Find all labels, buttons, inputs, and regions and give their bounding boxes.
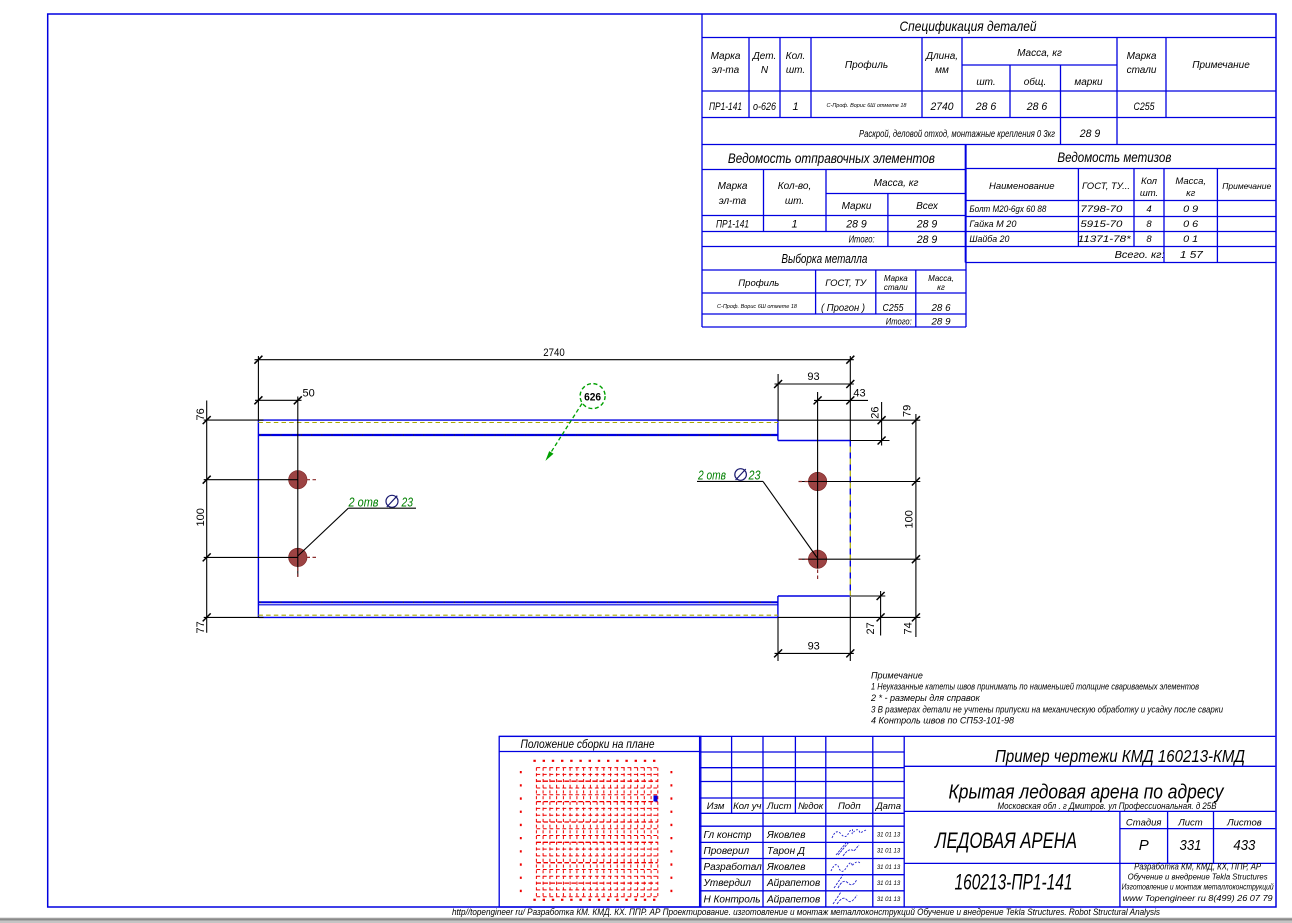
- svg-text:1: 1: [792, 101, 798, 113]
- svg-text:С255: С255: [1134, 101, 1156, 113]
- svg-text:2 * - размеры для справок: 2 * - размеры для справок: [870, 693, 981, 703]
- svg-text:23: 23: [748, 468, 761, 483]
- svg-text:31 01 13: 31 01 13: [877, 849, 901, 855]
- svg-text:50: 50: [303, 388, 315, 400]
- svg-text:Марки: Марки: [842, 201, 872, 212]
- svg-text:2740: 2740: [930, 101, 955, 113]
- svg-text:2 отв: 2 отв: [348, 494, 379, 509]
- svg-text:http//topengineer ru/ Разрабо: http//topengineer ru/ Разработка КМ. КМД…: [452, 907, 1160, 917]
- profile body outline (channel elevation): [258, 420, 850, 617]
- svg-text:43: 43: [853, 388, 865, 400]
- svg-text:Кол.: Кол.: [786, 51, 806, 62]
- svg-text:ЛЕДОВАЯ АРЕНА: ЛЕДОВАЯ АРЕНА: [933, 828, 1077, 853]
- svg-text:4 Контроль швов по СП53-101-9: 4 Контроль швов по СП53-101-98: [871, 716, 1014, 726]
- svg-text:шт.: шт.: [785, 196, 804, 207]
- svg-text:160213-ПР1-141: 160213-ПР1-141: [955, 870, 1073, 895]
- svg-text:1 57: 1 57: [1180, 250, 1204, 261]
- svg-text:Дет.: Дет.: [752, 51, 777, 62]
- svg-text:Стадия: Стадия: [1126, 818, 1162, 829]
- svg-text:433: 433: [1233, 837, 1256, 854]
- svg-text:28 6: 28 6: [975, 101, 997, 113]
- dimension chain right (79/100/74): [778, 414, 920, 637]
- bottom flange hidden edge (olive dashed): [258, 614, 778, 616]
- svg-text:Примечание: Примечание: [1222, 181, 1271, 191]
- svg-text:626: 626: [584, 392, 601, 404]
- svg-text:Масса,: Масса,: [1175, 176, 1206, 187]
- svg-text:Марка: Марка: [1127, 51, 1157, 62]
- dimension 93 (bottom): [774, 597, 854, 661]
- svg-text:0 6: 0 6: [1183, 219, 1199, 230]
- window edge grey bar: [0, 917, 1292, 918]
- svg-text:Айрапетов: Айрапетов: [766, 878, 820, 889]
- svg-text:о-626: о-626: [753, 101, 777, 113]
- dimension 43: [814, 396, 868, 404]
- svg-text:28 9: 28 9: [1079, 128, 1100, 140]
- svg-text:кг: кг: [1186, 188, 1195, 199]
- svg-text:Проверил: Проверил: [704, 846, 750, 857]
- svg-text:Профиль: Профиль: [738, 278, 779, 289]
- svg-text:Ведомость отправочных элементо: Ведомость отправочных элементов: [728, 150, 935, 166]
- bottom flange visible edges: [258, 601, 778, 603]
- svg-text:Яковлев: Яковлев: [766, 830, 805, 841]
- svg-text:100: 100: [903, 510, 915, 528]
- svg-text:Московская обл . г Дмитров. у: Московская обл . г Дмитров. ул Профессио…: [998, 801, 1218, 812]
- hole centrelines left: [204, 397, 298, 577]
- svg-text:С255: С255: [883, 303, 904, 314]
- svg-text:23: 23: [401, 494, 414, 509]
- svg-text:8: 8: [1146, 234, 1152, 245]
- svg-text:Тарон Д: Тарон Д: [767, 846, 805, 857]
- svg-text:Всего. кг:: Всего. кг:: [1115, 250, 1165, 261]
- svg-text:Болт М20-6gх 60 88: Болт М20-6gх 60 88: [969, 204, 1047, 215]
- svg-text:28 6: 28 6: [931, 303, 951, 314]
- svg-text:Гл констр: Гл констр: [704, 830, 752, 841]
- hole bottom-right: [808, 550, 826, 568]
- svg-text:Кол уч: Кол уч: [733, 801, 761, 812]
- svg-text:31 01 13: 31 01 13: [877, 881, 901, 887]
- svg-text:4: 4: [1146, 204, 1151, 215]
- svg-text:100: 100: [195, 508, 207, 526]
- svg-text:Р: Р: [1139, 837, 1149, 854]
- svg-text:31 01 13: 31 01 13: [877, 897, 901, 903]
- red building grid: [521, 761, 672, 900]
- svg-text:77: 77: [195, 621, 207, 633]
- svg-text:Изготовление и монтаж металлок: Изготовление и монтаж металлоконструкций: [1122, 883, 1274, 892]
- svg-text:Примечание: Примечание: [871, 670, 923, 680]
- dimension chain left (76/100/77): [203, 401, 264, 633]
- svg-text:Разработал: Разработал: [704, 861, 763, 873]
- svg-text:Разработка КМ, КМД, КХ, ППР, А: Разработка КМ, КМД, КХ, ППР, АР: [1134, 862, 1261, 872]
- svg-text:1: 1: [791, 219, 797, 231]
- dimension 2740 (top): [254, 356, 854, 441]
- svg-text:Кол-во,: Кол-во,: [778, 181, 812, 192]
- dimension 50 (left top): [254, 396, 301, 404]
- svg-text:Лист: Лист: [766, 801, 792, 812]
- svg-text:1 Неуказанные катеты швов при: 1 Неуказанные катеты швов принимать по н…: [871, 682, 1199, 692]
- title block: [904, 766, 1275, 907]
- grid position marker (blue): [654, 796, 658, 802]
- svg-text:Наименование: Наименование: [989, 181, 1055, 192]
- svg-text:( Прогон ): ( Прогон ): [821, 303, 865, 314]
- svg-text:ГОСТ, ТУ...: ГОСТ, ТУ...: [1082, 181, 1130, 192]
- svg-text:ГОСТ, ТУ: ГОСТ, ТУ: [825, 278, 867, 289]
- svg-text:Лист: Лист: [1177, 818, 1203, 829]
- right end hidden edge (dashed blue/olive): [849, 441, 851, 597]
- svg-text:Всех: Всех: [916, 201, 939, 212]
- signatures (blue scribbles): [831, 829, 866, 904]
- svg-text:Шайба 20: Шайба 20: [969, 234, 1010, 245]
- svg-text:ПР1-141: ПР1-141: [709, 101, 742, 113]
- svg-text:Выборка металла: Выборка металла: [781, 251, 867, 266]
- svg-text:Айрапетов: Айрапетов: [766, 894, 820, 905]
- svg-text:28 9: 28 9: [916, 219, 937, 231]
- svg-text:Подп: Подп: [838, 801, 861, 812]
- table: Ведомость метизов: [965, 145, 1276, 263]
- svg-text:2 отв: 2 отв: [697, 468, 726, 483]
- svg-text:11371-78*: 11371-78*: [1078, 234, 1131, 245]
- label 2 отв d23 (right): [697, 468, 761, 483]
- dimension 93 (top right): [774, 374, 854, 420]
- svg-text:26: 26: [869, 407, 881, 419]
- svg-text:шт.: шт.: [976, 77, 995, 88]
- label 2 отв d23 (left): [348, 494, 414, 509]
- svg-text:Утвердил: Утвердил: [703, 878, 752, 889]
- svg-text:31 01 13: 31 01 13: [877, 833, 901, 839]
- svg-text:ПР1-141: ПР1-141: [716, 219, 749, 231]
- svg-text:Пример чертежи КМД 160213-КМД: Пример чертежи КМД 160213-КМД: [995, 746, 1245, 766]
- svg-text:Н Контроль: Н Контроль: [704, 894, 761, 905]
- svg-text:5915-70: 5915-70: [1080, 219, 1123, 230]
- svg-text:331: 331: [1180, 837, 1202, 854]
- leader arrow of mark 626: [547, 404, 582, 459]
- dimension 27 (bottom right): [850, 591, 885, 636]
- svg-text:эл-та: эл-та: [719, 196, 747, 207]
- svg-text:93: 93: [808, 641, 820, 653]
- svg-text:Гайка М 20: Гайка М 20: [969, 219, 1017, 230]
- staff table (Изм/Кол.уч/Лист/№док/Подп/Дата): [499, 736, 1275, 907]
- svg-text:Дата: Дата: [875, 801, 901, 812]
- svg-text:Положение сборки на плане: Положение сборки на плане: [521, 737, 655, 751]
- svg-text:Длина,: Длина,: [925, 51, 958, 62]
- svg-text:эл-та: эл-та: [712, 65, 740, 76]
- NOTES: [870, 670, 1223, 725]
- svg-text:Примечание: Примечание: [1192, 60, 1250, 71]
- svg-text:мм: мм: [935, 65, 949, 76]
- hole top-left: [289, 471, 307, 489]
- svg-text:www Topengineer ru 8(49: www Topengineer ru 8(499) 26 07 79: [1123, 894, 1274, 903]
- dimension 26 (right): [850, 402, 889, 446]
- table: Ведомость отправочных элементов: [702, 145, 966, 328]
- svg-text:74: 74: [902, 622, 914, 634]
- svg-text:28 9: 28 9: [845, 219, 866, 231]
- svg-text:Яковлев: Яковлев: [766, 862, 805, 873]
- svg-text:шт.: шт.: [786, 65, 805, 76]
- svg-text:С-Проф. Ворис 6Ш отмете 18: С-Проф. Ворис 6Ш отмете 18: [717, 304, 798, 310]
- svg-text:стали: стали: [1127, 65, 1157, 76]
- hole bottom-left: [289, 548, 307, 566]
- svg-text:N: N: [761, 65, 769, 76]
- svg-text:общ.: общ.: [1024, 76, 1046, 88]
- svg-text:№док: №док: [798, 801, 824, 812]
- box: Положение сборки на плане: [499, 736, 701, 907]
- svg-text:Масса, кг: Масса, кг: [1017, 48, 1062, 59]
- svg-text:28 9: 28 9: [916, 234, 937, 246]
- svg-text:79: 79: [901, 405, 913, 417]
- svg-text:шт.: шт.: [1140, 188, 1158, 199]
- svg-text:27: 27: [865, 622, 877, 634]
- svg-text:Спецификация деталей: Спецификация деталей: [900, 18, 1037, 34]
- svg-text:кг: кг: [937, 283, 945, 292]
- svg-text:Кол: Кол: [1141, 176, 1158, 187]
- svg-text:Обучение и внедрение Tekla St: Обучение и внедрение Tekla Structures: [1128, 873, 1268, 882]
- svg-text:0 9: 0 9: [1183, 204, 1199, 215]
- svg-text:76: 76: [195, 408, 207, 420]
- svg-text:8: 8: [1146, 219, 1152, 230]
- svg-text:Масса,: Масса,: [928, 274, 954, 283]
- svg-text:3 В размерах детали не учтены: 3 В размерах детали не учтены припуски н…: [871, 704, 1223, 714]
- svg-text:стали: стали: [884, 283, 908, 292]
- svg-text:31 01 13: 31 01 13: [877, 865, 901, 871]
- top flange hidden edge (olive dashed): [258, 422, 778, 424]
- svg-text:Масса, кг: Масса, кг: [874, 178, 919, 189]
- svg-text:Изм: Изм: [707, 801, 725, 812]
- table: Спецификация деталей: [702, 14, 1276, 145]
- svg-text:Профиль: Профиль: [845, 59, 888, 71]
- top flange visible edge (thick): [258, 434, 778, 436]
- svg-text:7798-70: 7798-70: [1080, 204, 1123, 215]
- svg-text:28 6: 28 6: [1026, 101, 1048, 113]
- svg-text:2740: 2740: [543, 347, 565, 359]
- svg-text:Итого:: Итого:: [849, 235, 875, 246]
- svg-text:28 9: 28 9: [930, 317, 951, 328]
- table: Выборка металла: [702, 270, 966, 327]
- svg-text:Раскрой, деловой отход, монтаж: Раскрой, деловой отход, монтажные крепле…: [859, 129, 1055, 140]
- svg-text:Ведомость метизов: Ведомость метизов: [1057, 149, 1171, 165]
- svg-text:Марка: Марка: [711, 51, 741, 62]
- svg-text:С-Проф. Ворис 6Ш отмете 18: С-Проф. Ворис 6Ш отмете 18: [827, 103, 908, 109]
- svg-text:93: 93: [807, 371, 819, 383]
- detail mark 626 (green circle): [580, 384, 605, 409]
- hole top-right: [808, 472, 826, 490]
- hole centrelines right: [799, 392, 921, 569]
- svg-text:0 1: 0 1: [1183, 234, 1198, 245]
- svg-text:марки: марки: [1074, 77, 1103, 88]
- svg-text:Листов: Листов: [1226, 818, 1262, 829]
- svg-text:Итого:: Итого:: [886, 317, 912, 328]
- svg-text:Марка: Марка: [884, 274, 908, 283]
- svg-text:Марка: Марка: [718, 181, 748, 192]
